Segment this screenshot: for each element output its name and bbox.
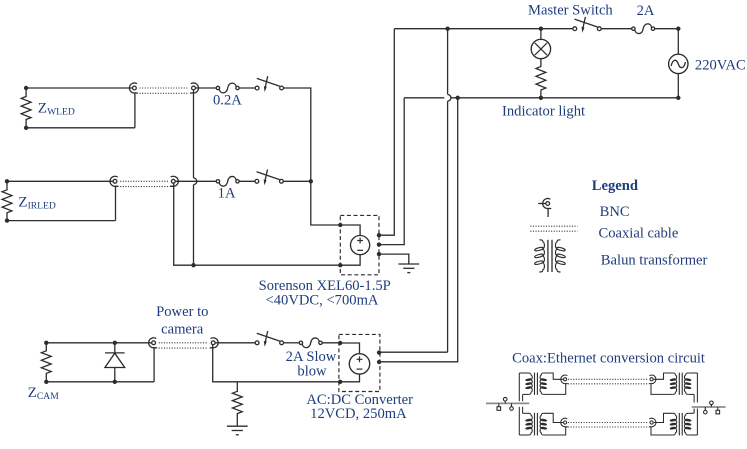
PSU input node + [338, 223, 342, 227]
svg-text:1A: 1A [218, 185, 236, 201]
svg-text:220VAC: 220VAC [695, 58, 746, 74]
hop indicator rail [448, 95, 451, 102]
coaxial cable conv bottom [568, 422, 649, 424]
wire ZCAM bottom [46, 381, 154, 383]
ground (camera) [227, 425, 248, 427]
svg-text:ZWLED: ZWLED [38, 100, 75, 118]
wire AC source to bottom rail [677, 74, 679, 98]
ethernet connector right [692, 406, 726, 408]
indicator rail wire [404, 97, 444, 99]
ACDC converter dashed box [339, 334, 380, 391]
wire diode to BNC [115, 342, 152, 344]
junction row1-row2 [309, 179, 313, 183]
svg-text:ZCAM: ZCAM [28, 384, 60, 402]
T2 bracket wires [518, 407, 520, 435]
top rail wire [394, 28, 573, 30]
wire ZWLED top [26, 87, 132, 89]
balun transformer T3 (right top) [649, 373, 698, 395]
wire J2 shield drop (hops row2) [193, 90, 195, 178]
wire F1 to S1 [239, 87, 255, 89]
wire PSU out2 to indicator rail [379, 98, 404, 245]
wire J5 shield drop [153, 347, 155, 381]
legend balun transformer symbol [539, 240, 544, 272]
wire fuse to converter [322, 342, 340, 344]
dc source U1 (Sorenson) [351, 236, 370, 255]
junction lamp top [539, 27, 543, 31]
wire J3 shield drop [115, 186, 117, 221]
coaxial cable camera [159, 342, 208, 344]
BNC J1 [133, 86, 137, 90]
wire J4 shield drop [174, 184, 192, 266]
svg-text:camera: camera [161, 322, 204, 338]
BNC J5 [152, 341, 156, 345]
wire J6 to switch [215, 342, 255, 344]
svg-text:BNC: BNC [600, 204, 630, 220]
wire rail corner to AC source [676, 27, 680, 31]
wire ZCAM top [46, 342, 112, 344]
coaxial cable row1 [140, 87, 189, 89]
junction converter feed [445, 27, 449, 31]
Sorenson PSU dashed box [340, 215, 379, 274]
svg-text:Legend: Legend [592, 178, 638, 194]
wire indicator rail to converter - [379, 98, 458, 362]
diode D1 [114, 343, 116, 353]
ground (PSU) [398, 263, 419, 265]
resistor ZIRLED [2, 181, 12, 220]
BNC J3 [113, 179, 117, 183]
wire J6 shield drop [213, 345, 341, 382]
svg-text:ZIRLED: ZIRLED [18, 194, 56, 212]
dc source U2 (ACDC) [349, 354, 369, 374]
wire ZWLED bottom [26, 127, 135, 129]
wire S3 to fuse [284, 342, 300, 344]
junction return wire [191, 263, 195, 267]
balun transformer T4 (right bottom) [649, 413, 698, 436]
resistor R3 (indicator) [536, 59, 546, 98]
svg-text:Coax:Ethernet conversion circu: Coax:Ethernet conversion circuit [512, 351, 705, 367]
balun transformer T2 (left bottom) [523, 412, 529, 414]
svg-text:Master Switch: Master Switch [528, 2, 613, 18]
wire node down to PSU [311, 181, 341, 225]
lamp (indicator light) [540, 29, 542, 40]
switch S3 [255, 341, 259, 345]
legend BNC symbol [538, 203, 546, 205]
BNC J2 [192, 86, 196, 90]
converter output node 1 [377, 350, 381, 354]
wire ZIRLED top [7, 180, 113, 182]
ethernet connector left [486, 402, 529, 404]
junction diode bottom [113, 380, 117, 384]
PSU output node 1 [377, 233, 381, 237]
T3 bracket wires [696, 373, 698, 403]
converter input node 1 [338, 341, 342, 345]
BNC J4 [171, 179, 175, 183]
master switch S4 [573, 27, 577, 31]
svg-text:2A Slow: 2A Slow [286, 349, 337, 365]
coaxial cable conv top [568, 378, 649, 380]
switch S2 [255, 179, 259, 183]
coaxial cable row2 [120, 180, 168, 182]
wire J1 shield drop [134, 93, 136, 128]
wire return to PSU [194, 264, 341, 266]
svg-text:12VCD, 250mA: 12VCD, 250mA [310, 406, 407, 422]
balun transformer T1 (left top) [519, 372, 528, 374]
T4 bracket wires [696, 409, 698, 436]
PSU input node - [338, 263, 342, 267]
junction diode top [113, 341, 117, 345]
resistor R5 to ground [232, 382, 242, 426]
switch S1 [255, 86, 259, 90]
legend coaxial cable symbol [530, 225, 577, 227]
junction converter return [456, 96, 460, 100]
wire F2 to S2 [239, 180, 255, 182]
resistor ZCAM [41, 343, 51, 382]
wire J4 to fuse [175, 180, 216, 182]
svg-text:Indicator light: Indicator light [502, 103, 585, 119]
svg-text:Coaxial cable: Coaxial cable [599, 225, 679, 241]
resistor ZWLED [21, 88, 31, 128]
svg-text:2A: 2A [637, 3, 655, 19]
junction lamp bottom [539, 96, 543, 100]
fuse F1 0.2A [216, 86, 219, 89]
svg-text:Balun transformer: Balun transformer [601, 252, 708, 268]
wire J2 to fuse [196, 87, 217, 89]
wire S2 to junction [283, 180, 310, 182]
PSU output node 3 [377, 252, 381, 256]
PSU internal wiring [340, 225, 360, 235]
PSU output node 2 [377, 242, 381, 246]
T1 bracket wires [518, 373, 520, 401]
converter input node 2 [338, 380, 342, 384]
wire S1 right + down to node [284, 88, 311, 181]
svg-text:Power to: Power to [156, 304, 208, 320]
wire PSU out3 to ground [379, 254, 409, 264]
wire ZIRLED bottom [7, 220, 116, 222]
wire PSU out1 to top rail [379, 29, 394, 236]
converter output node 2 [377, 360, 381, 364]
svg-text:blow: blow [297, 364, 327, 380]
converter internal wiring [340, 343, 359, 354]
fuse F2 1A [216, 180, 219, 183]
fuse F5 2A slow blow [299, 341, 302, 344]
wire top rail to converter + [447, 29, 449, 95]
ac source 220VAC [669, 54, 688, 73]
fuse F4 2A [632, 27, 635, 30]
svg-text:<40VDC, <700mA: <40VDC, <700mA [266, 293, 379, 309]
BNC J6 [211, 341, 215, 345]
svg-text:0.2A: 0.2A [213, 93, 242, 109]
